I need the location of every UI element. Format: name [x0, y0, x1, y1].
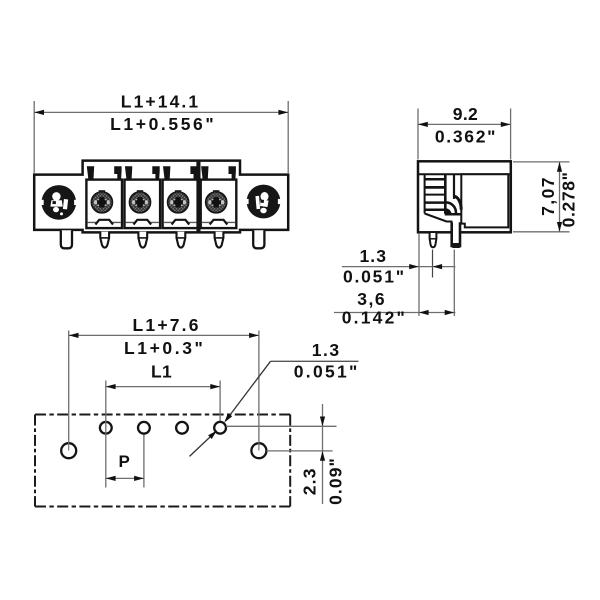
svg-text:0.142": 0.142"	[342, 307, 407, 327]
svg-text:0.362": 0.362"	[435, 127, 497, 147]
svg-text:L1+0.3": L1+0.3"	[124, 338, 205, 358]
svg-text:L1+7.6: L1+7.6	[133, 315, 201, 335]
svg-text:P: P	[119, 452, 130, 471]
svg-text:1.3: 1.3	[312, 340, 341, 360]
svg-text:0.051": 0.051"	[294, 362, 360, 382]
svg-text:9.2: 9.2	[453, 104, 478, 124]
svg-text:2.3: 2.3	[300, 467, 320, 495]
svg-text:L1+0.556": L1+0.556"	[110, 114, 216, 134]
svg-text:0.278": 0.278"	[558, 171, 578, 227]
svg-text:L1: L1	[151, 361, 172, 381]
svg-text:0.09": 0.09"	[326, 457, 346, 505]
svg-text:L1+14.1: L1+14.1	[121, 92, 200, 112]
svg-text:7,07: 7,07	[538, 176, 558, 216]
svg-text:3,6: 3,6	[357, 289, 386, 309]
svg-text:1.3: 1.3	[359, 246, 387, 266]
svg-text:0.051": 0.051"	[343, 267, 406, 287]
